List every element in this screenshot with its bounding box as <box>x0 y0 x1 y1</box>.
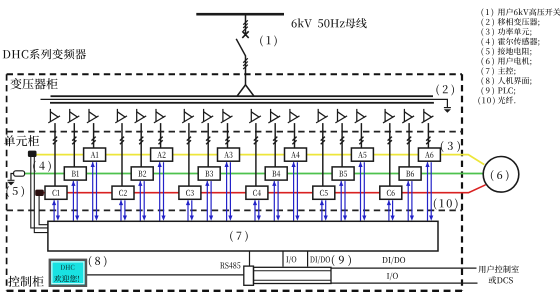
3-phase marks upper <box>243 20 248 31</box>
power cell A4 <box>285 148 307 161</box>
fiber pair of cell A4 <box>292 162 300 221</box>
power cell B5 <box>332 167 354 180</box>
input wire to cell B4 <box>274 123 276 167</box>
cabinet frame right border <box>461 74 463 291</box>
port divider 3 <box>307 251 309 267</box>
label RS485 <box>220 262 240 268</box>
bus label 6kV 50Hz母线 <box>292 18 367 28</box>
label 单元柜 <box>4 135 39 146</box>
label (1) <box>260 35 277 46</box>
input wire to cell A4 <box>294 123 296 148</box>
power cell B3 <box>198 167 220 180</box>
fiber pair of cell A6 <box>425 162 433 221</box>
secondary winding for cell B5 <box>335 109 347 123</box>
fuse marks on A3 <box>225 137 229 145</box>
label (6) <box>491 170 509 181</box>
fiber pair of cell A1 <box>91 162 99 221</box>
main controller (7) <box>48 221 438 251</box>
secondary winding for cell A2 <box>154 109 166 123</box>
fuse marks on B6 <box>407 137 411 145</box>
legend line (8) 人机界面; <box>481 77 494 85</box>
secondary winding for cell B6 <box>402 109 414 123</box>
legend line (10) 光纤. <box>478 97 494 105</box>
secondary winding for cell C5 <box>316 109 328 123</box>
phase bus U yellow <box>29 155 485 165</box>
power cell B2 <box>131 167 153 180</box>
port divider 2 <box>282 251 284 267</box>
label I/O port <box>286 256 296 264</box>
I/O line to user DCS <box>331 282 478 284</box>
power cell C6 <box>380 186 402 199</box>
cabinet frame bottom border <box>7 290 462 292</box>
power cell C3 <box>179 186 201 199</box>
wire bus drop upper <box>245 16 247 37</box>
label 变压器柜 <box>10 78 57 89</box>
separator transformer/unit cabinet <box>7 131 462 133</box>
fiber pair of cell B1 <box>71 181 79 221</box>
RS485 link wire <box>86 274 244 276</box>
fuse marks on C1 <box>53 137 57 145</box>
secondary winding for cell A6 <box>422 109 434 123</box>
input wire to cell C5 <box>322 123 324 186</box>
legend line (6) 用户电机; <box>481 57 494 65</box>
wire bus drop lower <box>245 56 247 86</box>
label 控制柜 <box>8 276 43 287</box>
fiber pair of cell C5 <box>320 200 328 221</box>
input wire to cell C2 <box>121 123 123 186</box>
cabinet frame top border <box>7 73 462 75</box>
fiber pair of cell C2 <box>119 200 127 221</box>
sensor wire 1 to controller <box>31 157 48 228</box>
label (4) <box>33 161 51 172</box>
fuse marks on C4 <box>254 137 258 145</box>
phase bus V green <box>24 173 483 175</box>
secondary winding for cell C6 <box>383 109 395 123</box>
fiber pair of cell C1 <box>52 200 60 221</box>
fuse marks on A5 <box>359 137 363 145</box>
fiber pair of cell B5 <box>339 181 347 221</box>
power cell A3 <box>218 148 240 161</box>
legend line (7) 主控; <box>481 67 494 75</box>
sensor wire 3 to controller <box>39 196 48 225</box>
fiber pair of cell A5 <box>358 162 366 221</box>
fiber pair of cell B6 <box>406 181 414 221</box>
label 或DCS <box>489 276 513 284</box>
transformer (2) primary bar 2 <box>41 99 448 107</box>
sensor wire 2 to controller <box>34 157 48 233</box>
DI/DO line to user DCS <box>331 267 477 269</box>
PLC (9) rack <box>254 267 332 283</box>
fuse marks on A6 <box>426 137 430 145</box>
fiber pair of cell C3 <box>186 200 194 221</box>
input wire to cell B5 <box>341 123 343 167</box>
power cell B4 <box>265 167 287 180</box>
secondary winding for cell A4 <box>288 109 300 123</box>
3-phase marks lower <box>243 58 248 69</box>
fuse marks on C6 <box>388 137 392 145</box>
cabinet frame left border <box>6 74 8 291</box>
power cell C1 <box>45 186 67 199</box>
legend line (3) 功率单元; <box>481 28 494 36</box>
secondary winding for cell B2 <box>135 109 147 123</box>
grounding resistor (5) <box>11 171 25 180</box>
wye fork to transformer <box>237 85 253 96</box>
fuse marks on B2 <box>139 137 143 145</box>
power cell A1 <box>84 148 106 161</box>
label (7) <box>230 231 248 242</box>
label I/O line <box>387 273 398 281</box>
label (8) <box>89 256 107 267</box>
secondary winding for cell C3 <box>182 109 194 123</box>
legend line (5) 接地电阻; <box>481 48 494 56</box>
fiber pair of cell A2 <box>158 162 166 221</box>
phase bus W red <box>35 185 485 193</box>
legend line (9) PLC; <box>481 87 494 95</box>
legend line (2) 移相变压器; <box>481 18 494 26</box>
input wire to cell A1 <box>93 123 95 148</box>
switch blade (1) <box>236 39 245 56</box>
input wire to cell A5 <box>360 123 362 148</box>
transformer (2) primary bar 3 <box>50 102 434 104</box>
power cell B6 <box>399 167 421 180</box>
secondary winding for cell B1 <box>68 109 80 123</box>
port divider 1 <box>249 251 251 267</box>
label (5) <box>6 186 24 197</box>
fiber pair of cell B2 <box>138 181 146 221</box>
input wire to cell B2 <box>140 123 142 167</box>
legend line (1) 用户6kV高压开关; <box>481 8 493 16</box>
fuse marks on B3 <box>206 137 210 145</box>
fuse marks on A1 <box>92 137 96 145</box>
separator unit/control cabinet <box>7 209 462 211</box>
power cell A5 <box>351 148 373 161</box>
label (3) <box>441 141 460 152</box>
fuse marks on C5 <box>321 137 325 145</box>
secondary winding for cell B3 <box>202 109 214 123</box>
secondary winding for cell C2 <box>115 109 127 123</box>
HMI (8) touch panel <box>50 260 86 286</box>
secondary winding for cell A1 <box>87 109 99 123</box>
fuse marks on C3 <box>187 137 191 145</box>
fuse marks on B4 <box>273 137 277 145</box>
input wire to cell A6 <box>427 123 429 148</box>
label 用户控制室 <box>478 265 518 273</box>
fuse marks on A4 <box>292 137 296 145</box>
motor M (6) <box>483 157 519 193</box>
legend line (4) 霍尔传感器; <box>481 38 494 46</box>
secondary winding for cell A3 <box>221 109 233 123</box>
label DI/DO port <box>310 256 330 264</box>
input wire to cell A3 <box>227 123 229 148</box>
power cell C4 <box>246 186 268 199</box>
input wire to cell C6 <box>389 123 391 186</box>
power cell B1 <box>64 167 86 180</box>
label (10) <box>434 198 458 209</box>
input wire to cell C1 <box>54 123 56 186</box>
input wire to cell B1 <box>73 123 75 167</box>
hall sensor on red bus <box>35 190 44 196</box>
label DI/DO line <box>382 257 405 265</box>
6kV bus bar <box>196 13 284 16</box>
fiber pair of cell C4 <box>253 200 261 221</box>
breaker contact X <box>242 31 248 38</box>
input wire to cell C4 <box>255 123 257 186</box>
power cell C2 <box>112 186 134 199</box>
power cell A2 <box>151 148 173 161</box>
fuse marks on A2 <box>159 137 163 145</box>
fuse marks on B1 <box>72 137 76 145</box>
PLC (9) left connector <box>244 266 254 285</box>
power cell A6 <box>418 148 440 161</box>
label (2) <box>436 84 454 95</box>
label (9) <box>332 255 351 266</box>
input wire to cell C3 <box>188 123 190 186</box>
transformer (2) primary bar 1 <box>51 95 434 97</box>
fuse marks on C2 <box>120 137 124 145</box>
hall sensor (4) on yellow bus <box>28 151 37 157</box>
secondary winding for cell A5 <box>355 109 367 123</box>
input wire to cell A2 <box>160 123 162 148</box>
title DHC系列变频器 <box>3 49 86 60</box>
input wire to cell B3 <box>207 123 209 167</box>
ground symbol for resistor <box>7 180 14 185</box>
fiber pair of cell B4 <box>272 181 280 221</box>
fiber pair of cell C6 <box>387 200 395 221</box>
fiber pair of cell B3 <box>205 181 213 221</box>
transformer neutral ground <box>444 108 451 113</box>
fiber pair of cell A3 <box>225 162 233 221</box>
secondary winding for cell B4 <box>268 109 280 123</box>
power cell C5 <box>313 186 335 199</box>
fuse marks on B5 <box>340 137 344 145</box>
input wire to cell B6 <box>408 123 410 167</box>
secondary winding for cell C4 <box>249 109 261 123</box>
secondary winding for cell C1 <box>48 109 60 123</box>
